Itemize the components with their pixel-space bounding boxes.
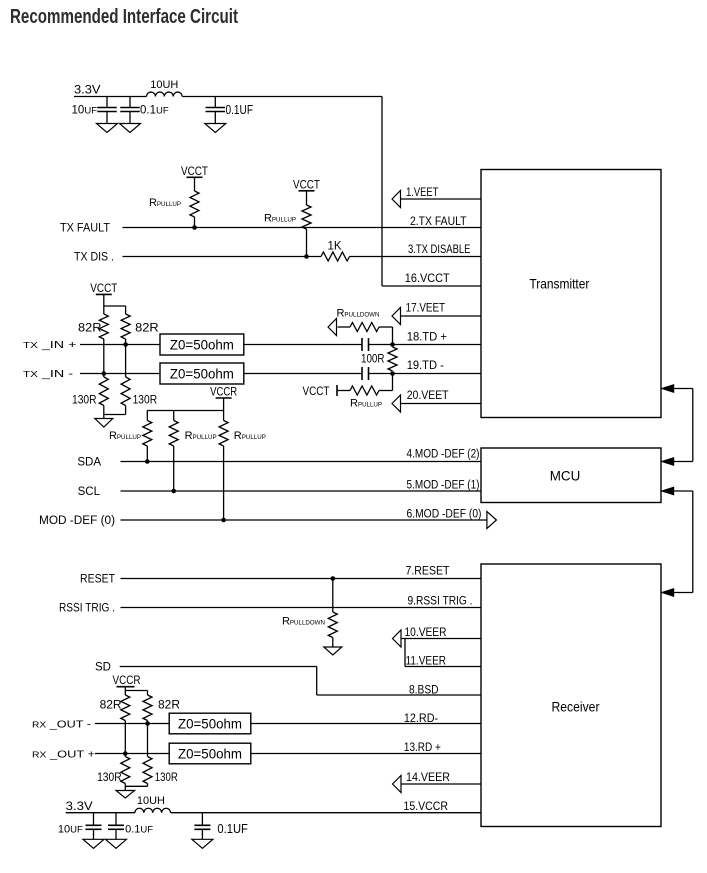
svg-text:RPULLDOWN: RPULLDOWN: [282, 616, 325, 628]
resistor 130R right: [121, 377, 130, 406]
node TX FAULT label: [60, 222, 110, 234]
power VCCT symbol for pullup R2: [293, 180, 320, 206]
value label 0.1UF (top C3): [226, 103, 254, 117]
svg-text:82R: 82R: [100, 698, 122, 712]
arrow VEER pin 14 (open): [393, 776, 402, 793]
wire TX_IN+ node down to 130R right: [125, 345, 127, 378]
capacitor coupling TD-: [362, 367, 369, 380]
svg-text:10.VEER: 10.VEER: [405, 627, 447, 639]
capacitor C4 10UF (bottom): [86, 813, 102, 840]
wire pin20 VEET: [401, 403, 482, 405]
svg-text:12.RD-: 12.RD-: [404, 713, 438, 725]
value label 130R right (RX): [155, 770, 178, 784]
svg-text:RX _OUT -: RX _OUT -: [32, 719, 92, 731]
svg-text:Z0=50ohm: Z0=50ohm: [178, 746, 242, 762]
pin label 15.VCCR: [404, 801, 449, 813]
ground under C6 (bottom): [192, 839, 213, 848]
junction dot TD- / 100R: [390, 371, 395, 376]
svg-text:RSSI TRIG .: RSSI TRIG .: [59, 603, 115, 615]
block Transmitter: [481, 170, 661, 418]
value label 82R right: [135, 321, 159, 335]
arrow into MCU pin4 side (filled): [662, 458, 674, 466]
wire TX FAULT to pin 2: [123, 227, 482, 229]
wire pin16 VCCT: [382, 285, 481, 287]
value label 82R left (RX): [100, 698, 122, 712]
label RPULLUP (TD-): [350, 398, 382, 410]
label MCU: [550, 468, 581, 484]
svg-text:RPULLUP: RPULLUP: [149, 197, 181, 209]
wire 82R right down to TX_IN+ node: [125, 339, 127, 345]
wire RPULLUP SCL down: [173, 446, 175, 491]
impedance box Z0=50ohm (TX-): [160, 363, 244, 384]
wire RX_OUT+ to Z0 box: [95, 753, 169, 755]
label RPULLUP (SCL): [185, 430, 217, 442]
svg-text:TX _IN -: TX _IN -: [23, 368, 74, 380]
svg-text:VCCT: VCCT: [181, 166, 208, 178]
label RPULLUP (MOD-DEF0): [234, 430, 266, 442]
pin label 6.MOD -DEF (0): [407, 508, 482, 520]
value label 0.1UF (bottom C6): [217, 822, 248, 836]
svg-text:1.VEET: 1.VEET: [406, 187, 438, 199]
wire TD- junction to pin 19: [393, 373, 482, 375]
svg-text:6.MOD -DEF (0): 6.MOD -DEF (0): [407, 508, 482, 520]
value label 10UF (bottom): [58, 824, 83, 836]
capacitor C2 0.1UF (top): [120, 97, 140, 124]
resistor 130R right (RX): [143, 757, 152, 784]
svg-text:3.3V: 3.3V: [66, 799, 93, 813]
pin label 12.RD-: [404, 713, 438, 725]
pin label 4.MOD -DEF (2): [407, 448, 480, 460]
svg-text:Receiver: Receiver: [552, 699, 600, 715]
ground under C2 (top): [120, 124, 141, 133]
inductor L1 10UH (top): [147, 92, 183, 96]
ground under C1 (top): [97, 124, 118, 133]
power VCCT symbol for pullup R1: [181, 166, 208, 191]
svg-text:Z0=50ohm: Z0=50ohm: [178, 716, 242, 732]
wire Z0 RX+ to pin 13: [251, 753, 481, 755]
junction dot RESET / RPULLDOWN: [331, 576, 336, 581]
svg-text:10UH: 10UH: [137, 795, 165, 807]
wire TX_IN- to Z0 box: [80, 373, 160, 375]
wire 82R left down to TX_IN- node: [103, 339, 105, 374]
svg-text:SDA: SDA: [77, 457, 101, 469]
svg-text:11.VEER: 11.VEER: [406, 656, 447, 668]
svg-text:0.1UF: 0.1UF: [125, 824, 153, 836]
node RX _OUT + label: [32, 749, 95, 761]
wire VCCR split bar (RX): [125, 690, 147, 692]
value label 130R right: [133, 393, 158, 407]
pin label 13.RD +: [404, 742, 441, 754]
value label 0.1UF (bottom C5): [125, 824, 153, 836]
svg-text:MOD -DEF (0): MOD -DEF (0): [39, 515, 115, 527]
svg-text:10UF: 10UF: [72, 105, 98, 117]
wire RX_OUT- node down to 130R right: [147, 724, 149, 757]
junction dot RX_OUT- / 82R-130R right: [145, 721, 150, 726]
wire TX_IN+ to Z0 box: [80, 344, 160, 346]
wire RSSI TRIG to pin 9: [121, 607, 482, 609]
label RPULLUP (SDA): [109, 430, 141, 442]
wire cap to TD+ junction: [369, 344, 393, 346]
svg-text:Recommended Interface Circuit: Recommended Interface Circuit: [10, 5, 238, 28]
junction dot RX_OUT+ / 82R-130R left: [123, 751, 128, 756]
pin label 14.VEER: [406, 772, 450, 784]
capacitor coupling TD+: [362, 338, 369, 351]
svg-text:VCCT: VCCT: [303, 386, 330, 398]
node SD label: [95, 662, 111, 674]
value label 0.1UF (top C2): [140, 105, 169, 117]
svg-text:2.TX FAULT: 2.TX FAULT: [410, 216, 467, 228]
wire 82R left down to RX_OUT+ node: [124, 721, 126, 754]
svg-text:16.VCCT: 16.VCCT: [405, 273, 450, 285]
label RPULLDOWN (TD+): [336, 308, 379, 320]
wire SCL to pin 5: [121, 490, 482, 492]
node TX _IN + label: [23, 339, 77, 351]
svg-text:RX _OUT +: RX _OUT +: [32, 749, 95, 761]
junction dot TX FAULT / RPULLUP1: [192, 225, 197, 230]
ground TX input network: [95, 419, 113, 428]
wire top 3.3V rail left segment: [74, 96, 147, 98]
svg-text:3.3V: 3.3V: [74, 83, 101, 97]
svg-text:82R: 82R: [78, 321, 102, 335]
svg-text:17.VEET: 17.VEET: [406, 302, 446, 314]
resistor RPULLDOWN (RESET): [328, 579, 337, 638]
svg-text:15.VCCR: 15.VCCR: [404, 801, 449, 813]
pin label 10.VEER: [405, 627, 447, 639]
svg-text:19.TD -: 19.TD -: [407, 360, 444, 372]
block Receiver: [481, 564, 661, 827]
wire Z0 RX- to pin 12: [251, 723, 481, 725]
wire pin14 VEER: [402, 783, 482, 785]
arrow VEET pin 17 (open): [392, 308, 401, 325]
svg-text:RPULLUP: RPULLUP: [109, 430, 141, 442]
resistor RPULLDOWN (TD+): [338, 323, 380, 332]
resistor 130R left: [99, 374, 108, 406]
wire 130R right bottom connector: [104, 406, 126, 415]
wire 130R left to ground (RX): [124, 784, 126, 791]
wire SD horizontal: [120, 666, 317, 668]
svg-text:0.1UF: 0.1UF: [226, 103, 254, 117]
wire SDA to pin 4: [121, 461, 482, 463]
power VCCT symbol (TX input network): [90, 283, 117, 306]
node TX _IN - label: [23, 368, 74, 380]
value label 10UH (top): [150, 79, 178, 91]
wire 82R right down to RX_OUT- node: [147, 721, 149, 724]
impedance box Z0=50ohm (RX-): [169, 713, 251, 734]
node TX DIS label: [74, 251, 114, 263]
svg-text:82R: 82R: [135, 321, 159, 335]
ground RPULLDOWN (RESET): [324, 647, 342, 655]
ground under C5 (bottom): [106, 839, 127, 848]
power VCCR symbol (RX network): [113, 675, 141, 691]
pin label 17.VEET: [406, 302, 446, 314]
junction dot TX DIS / RPULLUP2 / 1K: [304, 254, 309, 259]
wire VCCT feed vertical to pin 16: [381, 97, 383, 287]
resistor RPULLUP (SDA): [143, 411, 152, 447]
value label 10UH (bottom): [137, 795, 165, 807]
svg-text:Z0=50ohm: Z0=50ohm: [170, 366, 234, 382]
svg-text:9.RSSI TRIG .: 9.RSSI TRIG .: [408, 596, 473, 608]
svg-text:RESET: RESET: [80, 574, 115, 586]
pin label 8.BSD: [409, 685, 439, 697]
svg-text:10UF: 10UF: [58, 824, 83, 836]
node VCCT label (RPULLUP TD-): [303, 386, 330, 398]
wire cap to TD- junction: [369, 373, 393, 375]
svg-text:82R: 82R: [158, 698, 180, 712]
svg-text:Z0=50ohm: Z0=50ohm: [170, 337, 234, 353]
svg-text:VCCR: VCCR: [113, 675, 141, 687]
arrow VEET pin 1 (open): [392, 191, 401, 208]
value label 10UF (top): [72, 105, 98, 117]
svg-text:1K: 1K: [327, 240, 341, 252]
node SDA label: [77, 457, 101, 469]
arrow VEER pin 10 (open): [393, 630, 402, 647]
wire VCCR distribution bar: [147, 410, 223, 412]
label RPULLUP2: [264, 213, 296, 225]
svg-text:VCCR: VCCR: [210, 387, 237, 399]
wire SD corner down: [316, 667, 318, 696]
wire RESET to pin 7: [121, 578, 482, 580]
wire VEER 10-11 connector: [404, 639, 406, 667]
wire pin1 VEET: [401, 198, 482, 200]
wire RPULLDOWN to TD+ junction: [379, 327, 393, 345]
capacitor C3 0.1UF (top): [206, 97, 226, 124]
resistor 82R left: [99, 306, 108, 339]
wire RPULLUP MOD-DEF0 down: [223, 446, 225, 520]
wire MOD-DEF0 row: [121, 519, 487, 521]
wire RPULLUP SDA down: [146, 446, 148, 462]
svg-text:0.1UF: 0.1UF: [217, 822, 248, 836]
wire pin11 VEER: [405, 666, 481, 668]
node RESET label: [80, 574, 115, 586]
svg-text:TX FAULT: TX FAULT: [60, 222, 110, 234]
block MCU: [481, 448, 661, 503]
svg-text:TX DIS .: TX DIS .: [74, 251, 114, 263]
wire RX_OUT- to Z0 box: [95, 723, 169, 725]
svg-text:RPULLDOWN: RPULLDOWN: [336, 308, 379, 320]
resistor 1K: [321, 252, 350, 261]
svg-text:VCCT: VCCT: [293, 180, 320, 192]
pin label 2.TX FAULT: [410, 216, 467, 228]
resistor RPULLUP (MOD-DEF0): [219, 411, 228, 447]
resistor RPULLUP1 (TX FAULT pullup): [190, 191, 199, 217]
resistor RPULLUP (SCL): [169, 411, 178, 447]
wire VCCT split bar: [104, 305, 126, 307]
svg-text:130R: 130R: [133, 393, 158, 407]
resistor 82R right (RX): [143, 691, 152, 721]
svg-text:Transmitter: Transmitter: [529, 276, 589, 292]
pin label 1.VEET: [406, 187, 438, 199]
svg-text:RPULLUP: RPULLUP: [350, 398, 382, 410]
wire RPULLUP2 down to TX DIS net: [306, 229, 308, 257]
svg-text:130R: 130R: [72, 393, 97, 407]
label RPULLDOWN (RESET): [282, 616, 325, 628]
svg-text:SCL: SCL: [78, 486, 101, 498]
svg-text:18.TD +: 18.TD +: [407, 331, 448, 343]
svg-text:14.VEER: 14.VEER: [406, 772, 450, 784]
junction dot TX_IN+ / 82R-130R right: [123, 342, 128, 347]
resistor 130R left (RX): [121, 754, 130, 784]
svg-text:VCCT: VCCT: [90, 283, 117, 295]
value label 130R left (RX): [97, 770, 122, 784]
wire RPULLUP to TD- junction: [379, 374, 393, 391]
resistor 100R termination: [388, 347, 397, 371]
svg-text:130R: 130R: [155, 770, 178, 784]
arrow into Transmitter (filled): [662, 385, 674, 393]
svg-text:100R: 100R: [361, 354, 385, 366]
label Transmitter: [529, 276, 589, 292]
junction dot TD+ / 100R: [390, 342, 395, 347]
impedance box Z0=50ohm (RX+): [169, 743, 251, 764]
svg-text:RPULLUP: RPULLUP: [264, 213, 296, 225]
junction dot SCL: [171, 489, 176, 494]
node RSSI TRIG label: [59, 603, 115, 615]
wire bottom rail to pin 15: [171, 812, 481, 814]
value label 100R: [361, 354, 385, 366]
arrow into MCU pin5 side (filled): [662, 487, 674, 495]
wire Z0 TX- to coupling cap: [244, 373, 362, 375]
value label 130R left: [72, 393, 97, 407]
capacitor C5 0.1UF (bottom): [108, 813, 124, 840]
node 3.3V label (top rail): [74, 83, 101, 97]
wire MCU to Receiver link: [674, 491, 693, 593]
svg-text:13.RD +: 13.RD +: [404, 742, 441, 754]
ground under C3 (top): [205, 124, 226, 133]
label RPULLUP1: [149, 197, 181, 209]
wire TX DIS to 1K: [123, 256, 322, 258]
power VCCR symbol (MCU pullups): [210, 387, 237, 411]
ground under C4 (bottom): [83, 839, 104, 848]
capacitor C1 10UF (top): [97, 97, 117, 124]
svg-text:130R: 130R: [97, 770, 122, 784]
node RX _OUT- label: [32, 719, 92, 731]
svg-text:3.TX DISABLE: 3.TX DISABLE: [408, 244, 471, 256]
pin label 18.TD +: [407, 331, 448, 343]
value label 82R right (RX): [158, 698, 180, 712]
wire top rail right segment: [182, 96, 382, 98]
value label 82R left: [78, 321, 102, 335]
value label 1K: [327, 240, 341, 252]
svg-text:MCU: MCU: [550, 468, 581, 484]
label Receiver: [552, 699, 600, 715]
wire TD+ junction to pin 18: [393, 344, 482, 346]
pin label 20.VEET: [407, 390, 449, 402]
arrow MOD-DEF0 (open, right): [487, 512, 497, 529]
pin label 5.MOD -DEF (1): [407, 479, 480, 491]
wire 130R right bottom connector (RX): [125, 784, 147, 787]
svg-text:7.RESET: 7.RESET: [406, 566, 450, 578]
impedance box Z0=50ohm (TX+): [160, 334, 244, 355]
node MOD -DEF (0) label: [39, 515, 115, 527]
wire BSD to pin 8: [317, 694, 481, 696]
pin label 7.RESET: [406, 566, 450, 578]
pin label 19.TD -: [407, 360, 444, 372]
svg-text:TX _IN +: TX _IN +: [23, 339, 77, 351]
inductor L2 10UH (bottom): [135, 808, 171, 812]
pin label 3.TX DISABLE: [408, 244, 471, 256]
resistor 82R left (RX): [121, 691, 130, 721]
svg-text:RPULLUP: RPULLUP: [185, 430, 217, 442]
ground RX input network: [116, 791, 135, 799]
wire RPULLDOWN to ground: [332, 638, 334, 648]
wire Transmitter link: [674, 389, 693, 462]
arrow into Receiver (filled): [662, 589, 674, 597]
resistor RPULLUP (TD-): [337, 386, 379, 395]
junction dot TX_IN- / 82R-130R left: [102, 371, 107, 376]
svg-text:SD: SD: [95, 662, 111, 674]
svg-text:8.BSD: 8.BSD: [409, 685, 439, 697]
pin label 11.VEER: [406, 656, 447, 668]
arrow to VEET (RPULLDOWN left end): [328, 319, 337, 336]
wire pin10 VEER: [402, 638, 482, 640]
pin label 16.VCCT: [405, 273, 450, 285]
svg-text:4.MOD -DEF (2): 4.MOD -DEF (2): [407, 448, 480, 460]
junction dot SDA: [145, 459, 150, 464]
wire bottom 3.3V rail left segment: [66, 812, 135, 814]
wire RPULLUP1 to TX FAULT: [194, 217, 196, 228]
wire 130R left to ground: [103, 406, 105, 419]
capacitor C6 0.1UF (bottom): [194, 813, 210, 840]
junction dot MOD-DEF0: [221, 518, 226, 523]
wire Z0 TX+ to coupling cap: [244, 344, 362, 346]
node SCL label: [78, 486, 101, 498]
wire pin17 VEET: [401, 315, 482, 317]
svg-text:5.MOD -DEF (1): 5.MOD -DEF (1): [407, 479, 480, 491]
resistor 82R right: [121, 306, 130, 339]
svg-text:0.1UF: 0.1UF: [140, 105, 169, 117]
terminal bar VCCT (RPULLUP TD-): [336, 385, 338, 396]
svg-text:RPULLUP: RPULLUP: [234, 430, 266, 442]
svg-text:20.VEET: 20.VEET: [407, 390, 449, 402]
pin label 9.RSSI TRIG .: [408, 596, 473, 608]
wire 1K to pin 3: [350, 256, 482, 258]
arrow VEET pin 20 (open): [392, 395, 401, 412]
node 3.3V label (bottom rail): [66, 799, 93, 813]
resistor RPULLUP2 (TX DISABLE pullup): [302, 205, 311, 229]
svg-text:10UH: 10UH: [150, 79, 178, 91]
